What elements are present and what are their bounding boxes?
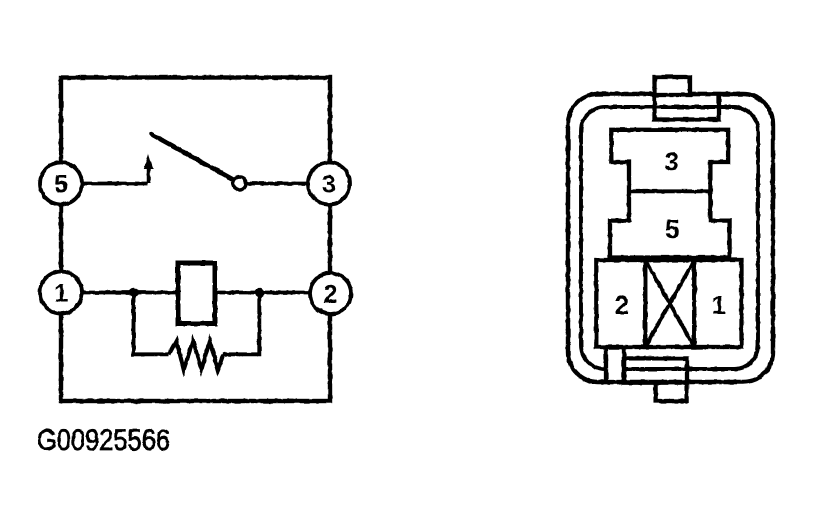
connector outer shell xyxy=(568,94,773,382)
switch blade xyxy=(151,134,234,180)
terminal 1 cavity xyxy=(694,260,741,347)
terminal 5 xyxy=(40,163,82,205)
wire terminal 1 to terminal 2 (coil net) xyxy=(80,291,312,295)
top tab wide rect xyxy=(655,94,720,120)
switch contact circle xyxy=(233,177,246,190)
bottom small tab xyxy=(656,383,687,401)
svg-text:1: 1 xyxy=(712,290,726,320)
wire resistor branch left xyxy=(134,293,170,355)
connector inner shell xyxy=(581,107,758,369)
relay outline box xyxy=(61,78,330,402)
switch actuator arrow xyxy=(144,154,153,184)
bottom tab bar xyxy=(624,358,687,382)
svg-text:3: 3 xyxy=(322,170,336,198)
divider line between cavity 3 and 5 xyxy=(629,189,710,193)
svg-text:2: 2 xyxy=(324,280,338,308)
terminal 2 xyxy=(310,273,351,314)
junction dot right xyxy=(254,288,264,298)
bottom tab strip xyxy=(606,347,624,382)
terminal 2 cavity xyxy=(596,260,645,347)
svg-text:3: 3 xyxy=(665,147,679,177)
relay coil xyxy=(178,263,215,324)
svg-text:G00925566: G00925566 xyxy=(37,424,170,457)
svg-text:5: 5 xyxy=(54,170,68,198)
junction dot left xyxy=(129,288,139,298)
terminal 3/5 cavity outline xyxy=(610,130,730,258)
resistor xyxy=(169,341,223,370)
terminal 1 xyxy=(40,272,82,314)
terminal 3 xyxy=(308,163,350,205)
wire terminal 5 to switch arrow xyxy=(80,182,148,186)
svg-text:1: 1 xyxy=(54,279,68,307)
svg-text:5: 5 xyxy=(665,214,679,244)
keyway X box xyxy=(645,260,694,347)
wire resistor branch right xyxy=(223,293,259,355)
svg-text:2: 2 xyxy=(615,290,629,320)
wire switch contact to terminal 3 xyxy=(246,182,310,186)
top tab small rect xyxy=(655,77,691,95)
